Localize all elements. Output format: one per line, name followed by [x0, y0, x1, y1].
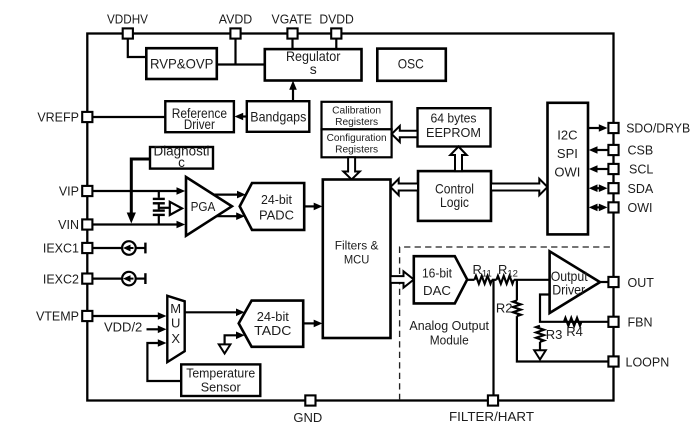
- arrow CSB pin to I2C: [589, 146, 609, 154]
- svg-text:M: M: [170, 301, 181, 316]
- pin AVDD: [219, 12, 253, 39]
- wire VREFP to Reference Driver: [93, 116, 165, 118]
- dac 16-bit DAC: [414, 256, 467, 303]
- svg-text:RVP&OVP: RVP&OVP: [150, 56, 214, 72]
- wire VGATE drop: [291, 39, 293, 49]
- pin VIN: [58, 218, 92, 232]
- arrow SDA bidirectional: [589, 184, 608, 192]
- svg-text:VIN: VIN: [58, 218, 79, 232]
- arrow TADC to Filters: [303, 320, 322, 328]
- wire R3 to open triangle: [539, 342, 541, 351]
- svg-text:PGA: PGA: [191, 199, 216, 214]
- pin VGATE: [272, 12, 313, 39]
- chip boundary border: [87, 34, 613, 401]
- svg-text:IEXC2: IEXC2: [43, 272, 79, 286]
- svg-text:Module: Module: [430, 333, 469, 348]
- svg-text:VREFP: VREFP: [37, 111, 79, 125]
- wire R12 to Output Driver: [514, 279, 550, 281]
- open arrow EEPROM to Registers: [392, 126, 418, 142]
- svg-text:SDA: SDA: [628, 182, 654, 196]
- pin FILTER/HART: [449, 395, 534, 423]
- reference arrow into TADC: [219, 332, 245, 354]
- pin VIP: [59, 185, 93, 199]
- svg-text:VTEMP: VTEMP: [36, 310, 79, 324]
- svg-text:X: X: [171, 331, 180, 346]
- pin IEXC1: [43, 242, 93, 256]
- svg-text:Configuration: Configuration: [327, 132, 387, 144]
- block RVP&OVP: [146, 48, 217, 79]
- svg-text:16-bit: 16-bit: [422, 266, 453, 280]
- svg-text:Calibration: Calibration: [332, 104, 381, 116]
- wire Diagnostic down arrow: [127, 159, 150, 224]
- current source IEXC1: [93, 241, 145, 255]
- op-amp PGA: [186, 177, 232, 236]
- pin DVDD: [319, 12, 354, 39]
- svg-text:Registers: Registers: [335, 116, 378, 128]
- block I2C SPI OWI: [548, 103, 589, 235]
- svg-text:Analog Output: Analog Output: [409, 318, 489, 333]
- adc 24-bit PADC: [240, 183, 305, 230]
- open triangle below R3: [534, 350, 546, 359]
- wire MUX to TADC: [185, 309, 245, 317]
- svg-text:SPI: SPI: [557, 146, 578, 161]
- open arrow Control Logic to I2C/SPI/OWI: [491, 179, 548, 195]
- pin LOOPN: [608, 355, 669, 369]
- wire junction down to R2: [516, 280, 518, 301]
- adc 24-bit TADC: [239, 301, 304, 347]
- block Configuration Registers: [322, 129, 392, 157]
- open arrow Filters to DAC: [391, 271, 414, 287]
- block Control Logic: [418, 171, 491, 221]
- pin SDO/DRYB: [608, 122, 690, 136]
- svg-text:EEPROM: EEPROM: [426, 125, 481, 140]
- block OSC: [377, 49, 446, 81]
- label VDD/2 and arrow to MUX: [104, 320, 167, 335]
- svg-text:SCL: SCL: [629, 163, 653, 177]
- block Filters & MCU: [323, 180, 391, 339]
- svg-text:TADC: TADC: [254, 323, 291, 338]
- block Calibration Registers: [322, 102, 392, 130]
- wire VIN to PGA: [93, 221, 185, 229]
- svg-text:OUT: OUT: [628, 276, 655, 290]
- svg-text:c: c: [178, 155, 185, 170]
- op-amp Output Driver: [550, 251, 600, 313]
- svg-text:Sensor: Sensor: [201, 379, 242, 394]
- arrow PGA to PADC upper: [214, 191, 246, 199]
- svg-text:R3: R3: [546, 327, 563, 342]
- pin VTEMP: [36, 310, 92, 324]
- resistor R3: [536, 326, 562, 342]
- block Reference Driver: [165, 101, 234, 132]
- pin OUT: [608, 276, 654, 290]
- buffer triangle at capacitors: [159, 202, 182, 215]
- pin OWI: [608, 201, 652, 215]
- wire Output Driver to OUT: [600, 281, 608, 283]
- svg-text:R4: R4: [566, 324, 583, 339]
- open arrow Control Logic to EEPROM: [450, 147, 466, 172]
- svg-text:Logic: Logic: [440, 194, 469, 210]
- svg-text:R2: R2: [496, 300, 513, 315]
- svg-text:IEXC1: IEXC1: [43, 242, 79, 256]
- wire RVP&OVP to Regulators: [217, 63, 265, 65]
- wire AVDD drop: [234, 39, 236, 65]
- current source IEXC2: [93, 272, 145, 286]
- wire R2 to LOOPN line: [517, 316, 608, 361]
- svg-text:VIP: VIP: [59, 185, 79, 199]
- wire DAC to R11: [467, 279, 474, 281]
- svg-text:Temperature: Temperature: [186, 365, 255, 380]
- block 64 bytes EEPROM: [418, 108, 491, 146]
- arrow SCL pin to I2C: [589, 165, 609, 173]
- wire VIP to PGA: [93, 187, 185, 195]
- svg-text:OWI: OWI: [628, 201, 653, 215]
- svg-text:U: U: [171, 315, 180, 330]
- svg-text:FBN: FBN: [628, 316, 653, 330]
- wire junction down to FILTER/HART: [492, 280, 494, 396]
- wire feedback FBN to driver input: [540, 295, 608, 322]
- svg-text:LOOPN: LOOPN: [626, 355, 670, 369]
- svg-text:Filters &: Filters &: [335, 241, 379, 253]
- block Diagnostic: [150, 143, 213, 170]
- wire R11 to R12 with FILTER/HART junction: [492, 279, 497, 281]
- wire VTEMP to MUX: [93, 312, 167, 320]
- pin VDDHV: [107, 12, 148, 39]
- resistor R4: [564, 318, 583, 339]
- pin SCL: [608, 163, 653, 177]
- pin FBN: [608, 316, 652, 330]
- arrow OWI bidirectional: [589, 204, 608, 212]
- open arrow Control Logic to Filters: [391, 179, 419, 195]
- svg-text:OWI: OWI: [554, 164, 580, 179]
- pin SDA: [608, 182, 653, 196]
- svg-text:Registers: Registers: [335, 144, 378, 156]
- arrow Bandgaps to Regulators: [289, 81, 297, 102]
- mux MUX: [167, 296, 184, 362]
- wire VDDHV to RVP&OVP: [128, 39, 147, 57]
- block Regulators: [265, 48, 362, 81]
- arrow Bandgaps to Reference Driver: [235, 113, 247, 121]
- svg-text:Driver: Driver: [552, 281, 585, 297]
- arrow PGA to PADC lower: [216, 212, 245, 220]
- svg-text:64 bytes: 64 bytes: [431, 111, 477, 126]
- svg-text:MCU: MCU: [344, 255, 370, 267]
- svg-text:CSB: CSB: [628, 144, 654, 158]
- svg-text:SDO/DRYB: SDO/DRYB: [626, 122, 690, 136]
- svg-text:VDD/2: VDD/2: [104, 320, 142, 335]
- svg-text:PADC: PADC: [259, 208, 294, 223]
- dashed Analog Output Module box: [400, 247, 613, 400]
- svg-text:AVDD: AVDD: [219, 12, 253, 27]
- pin IEXC2: [43, 272, 93, 286]
- block Temperature Sensor: [181, 364, 260, 396]
- svg-text:24-bit: 24-bit: [261, 192, 292, 207]
- resistor R12: [497, 262, 518, 284]
- svg-text:VGATE: VGATE: [272, 12, 313, 27]
- capacitor pair on VIP/VIN stub: [153, 191, 165, 225]
- arrow I2C to SDO/DRYB pin: [588, 124, 608, 132]
- svg-text:DVDD: DVDD: [319, 12, 354, 27]
- svg-text:DAC: DAC: [423, 284, 451, 298]
- pin GND: [293, 395, 322, 425]
- svg-text:I2C: I2C: [557, 128, 577, 143]
- svg-text:OSC: OSC: [398, 56, 424, 72]
- svg-text:Bandgaps: Bandgaps: [250, 109, 306, 125]
- resistor R2: [496, 300, 521, 316]
- pin VREFP: [37, 111, 92, 125]
- svg-text:Driver: Driver: [184, 116, 215, 132]
- pin CSB: [608, 144, 653, 158]
- svg-text:GND: GND: [293, 410, 322, 425]
- block Bandgaps: [247, 101, 309, 132]
- wire Temperature Sensor loop to MUX: [147, 339, 181, 381]
- arrow PADC to Filters: [304, 203, 322, 211]
- label Analog Output Module: [409, 318, 489, 348]
- svg-text:VDDHV: VDDHV: [107, 12, 148, 27]
- svg-text:s: s: [310, 61, 317, 77]
- svg-text:FILTER/HART: FILTER/HART: [449, 409, 534, 424]
- svg-text:24-bit: 24-bit: [257, 309, 290, 324]
- open arrow Registers to Filters: [343, 157, 359, 179]
- resistor R11: [473, 262, 492, 284]
- wire DVDD drop: [335, 39, 337, 49]
